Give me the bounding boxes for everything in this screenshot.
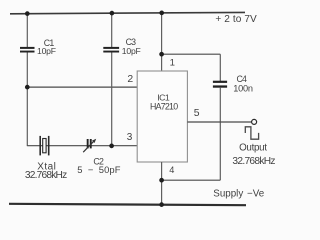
junction: pin3 row / C3 branch — [109, 144, 114, 149]
svg-text:10pF: 10pF — [122, 46, 141, 56]
svg-text:HA7210: HA7210 — [150, 102, 178, 112]
capacitor C1 — [20, 47, 35, 53]
junction: pin4 branch / -Ve rail — [159, 202, 164, 207]
wire: pin4 node to C4 lower lead — [162, 179, 221, 181]
wire: pin 1 branch (rail to IC top) — [161, 13, 163, 71]
svg-text:32.768kHz: 32.768kHz — [25, 170, 67, 181]
output terminal circle — [252, 119, 257, 124]
svg-text:1: 1 — [170, 57, 175, 68]
junction: pin4 branch / C4 link — [159, 178, 164, 183]
svg-text:100n: 100n — [233, 84, 253, 94]
capacitor C3 — [103, 47, 119, 53]
svg-text:Supply −Ve: Supply −Ve — [213, 188, 264, 199]
wire: -Ve bottom supply rail — [9, 204, 246, 205]
svg-text:2: 2 — [127, 74, 133, 85]
svg-text:5 − 50pF: 5 − 50pF — [77, 164, 120, 175]
wire: C1 branch lower segment (C1 to crystal row) — [26, 52, 28, 146]
junction: top rail / pin1 branch — [159, 11, 164, 16]
capacitor C4 — [213, 81, 227, 88]
svg-text:Output: Output — [239, 142, 267, 153]
wire: crystal / pin 3 row — [27, 145, 137, 147]
svg-text:3: 3 — [127, 132, 133, 143]
wire: C3 branch upper segment (rail to C3) — [111, 13, 113, 47]
trimmer capacitor C2 — [83, 139, 96, 152]
wire: C4 lower lead down to pin4 link — [219, 88, 221, 181]
square wave symbol — [245, 127, 258, 139]
wire: C1 branch upper segment (rail to C1) — [26, 14, 28, 48]
svg-text:10pF: 10pF — [37, 46, 56, 56]
wire: pin1 node to C4 top — [162, 53, 221, 55]
junction: top rail / C1 branch — [25, 11, 30, 16]
junction: pin1 branch / C4 link — [159, 52, 164, 57]
junction: top rail / C3 branch — [110, 11, 115, 16]
svg-text:+ 2 to 7V: + 2 to 7V — [215, 14, 257, 25]
svg-text:C4: C4 — [237, 74, 248, 84]
svg-text:32.768kHz: 32.768kHz — [232, 156, 275, 167]
svg-text:4: 4 — [169, 165, 174, 175]
crystal Xtal — [39, 136, 49, 156]
wire: pin 5 output wire — [187, 121, 251, 123]
wire: C4 upper lead — [219, 54, 221, 81]
wire: +V top supply rail — [10, 12, 245, 13]
IC U1 HA7210 body — [137, 71, 187, 162]
wire: C3 branch lower segment (C3 to pin3 row) — [111, 52, 113, 146]
wire: pin 2 wire (C1 branch to IC) — [27, 86, 137, 88]
wire: pin 4 branch (IC bottom to -Ve rail) — [161, 162, 163, 205]
junction: pin2 wire / C1 branch — [25, 85, 30, 90]
svg-text:5: 5 — [194, 108, 200, 119]
